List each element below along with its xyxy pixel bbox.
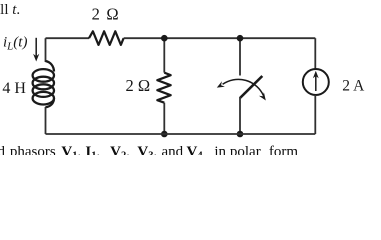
wire middle branch bottom: [163, 103, 165, 134]
current arrow iL: [33, 38, 39, 62]
wire switch branch bottom: [239, 97, 241, 134]
node dot top middle: [161, 35, 168, 42]
wire left vertical (bottom): [45, 107, 47, 134]
svg-text:2 Ω: 2 Ω: [126, 76, 151, 95]
node dot bottom middle: [161, 131, 168, 138]
switch blade: [240, 76, 262, 98]
wire left vertical (top): [45, 38, 47, 62]
wire bottom: [46, 133, 316, 135]
svg-text:in: in: [214, 144, 226, 155]
wire top-left segment: [46, 37, 90, 39]
svg-text:2 Ω: 2 Ω: [92, 4, 120, 23]
svg-text:and: and: [162, 144, 184, 155]
svg-text:V4: V4: [187, 144, 204, 155]
svg-text:V3,: V3,: [137, 144, 157, 155]
svg-text:V2,: V2,: [110, 144, 130, 155]
wire switch branch top stub: [239, 38, 241, 75]
svg-text:I1,: I1,: [85, 144, 100, 155]
svg-text:iL(t): iL(t): [3, 34, 27, 52]
wire middle branch top: [163, 38, 165, 72]
bottom caption (cut off): d phasors V1, I1, V2, V3, and V4 in polar form: [0, 144, 298, 162]
svg-text:V1,: V1,: [61, 144, 81, 155]
node dot bottom switch: [237, 131, 244, 138]
inductor L1 4H coil: [33, 61, 54, 107]
wire right vertical (top): [314, 38, 316, 69]
svg-text:form: form: [269, 144, 298, 155]
wire top-middle segment: [124, 37, 316, 39]
current source I1 circle: [303, 69, 329, 95]
wire right vertical (bottom): [314, 95, 316, 134]
resistor R1 2ohm horizontal zigzag: [89, 31, 124, 45]
svg-text:all t.: all t.: [0, 2, 20, 18]
svg-text:2 A: 2 A: [342, 78, 365, 95]
switch motion arc with arrowheads: [217, 79, 266, 100]
svg-text:polar: polar: [230, 144, 261, 155]
resistor R2 2ohm vertical zigzag: [157, 73, 170, 103]
svg-text:4 H: 4 H: [2, 80, 26, 97]
svg-text:phasors: phasors: [10, 144, 56, 155]
current source arrow: [313, 71, 319, 91]
node dot top switch: [237, 35, 244, 42]
svg-text:d: d: [0, 144, 6, 155]
